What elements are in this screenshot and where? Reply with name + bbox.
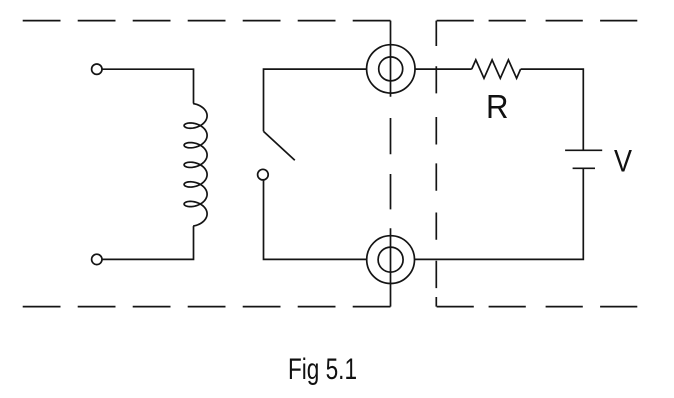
svg-text:R: R [486,88,509,125]
battery V long plate [565,149,602,151]
svg-text:V: V [614,143,632,179]
wire resistor to battery top [521,69,584,150]
wire J1 to resistor [415,68,472,70]
switch blade (open contact) [264,131,295,160]
switch contact circle [258,169,269,180]
connector J2 outer circle [367,236,415,284]
battery V short plate [573,167,595,169]
wire T1 to coil top [102,69,194,103]
dashed vertical border line [435,21,437,307]
wire coil bottom to T2 [102,226,194,259]
dashed border bottom-left segment [23,306,391,308]
wire switch top rail to connector J1 [264,69,367,131]
connector J1 outer circle [367,45,415,93]
dashed border bottom-right segment [437,306,638,308]
svg-text:Fig 5.1: Fig 5.1 [288,353,357,386]
terminal T2 bottom-left [92,254,102,264]
connector J2 inner circle [378,247,403,272]
wire switch bottom to rail [264,180,367,260]
resistor R zigzag [472,60,521,78]
dashed border top-left segment [23,20,391,22]
connector J1 inner circle [379,57,403,81]
wire battery bottom to J2 [415,168,584,259]
inductor coil L (relay coil) [184,104,207,226]
dashed vertical line through connectors (node line) [390,21,392,307]
terminal T1 top-left [92,64,102,74]
dashed border top-right segment [437,20,638,22]
